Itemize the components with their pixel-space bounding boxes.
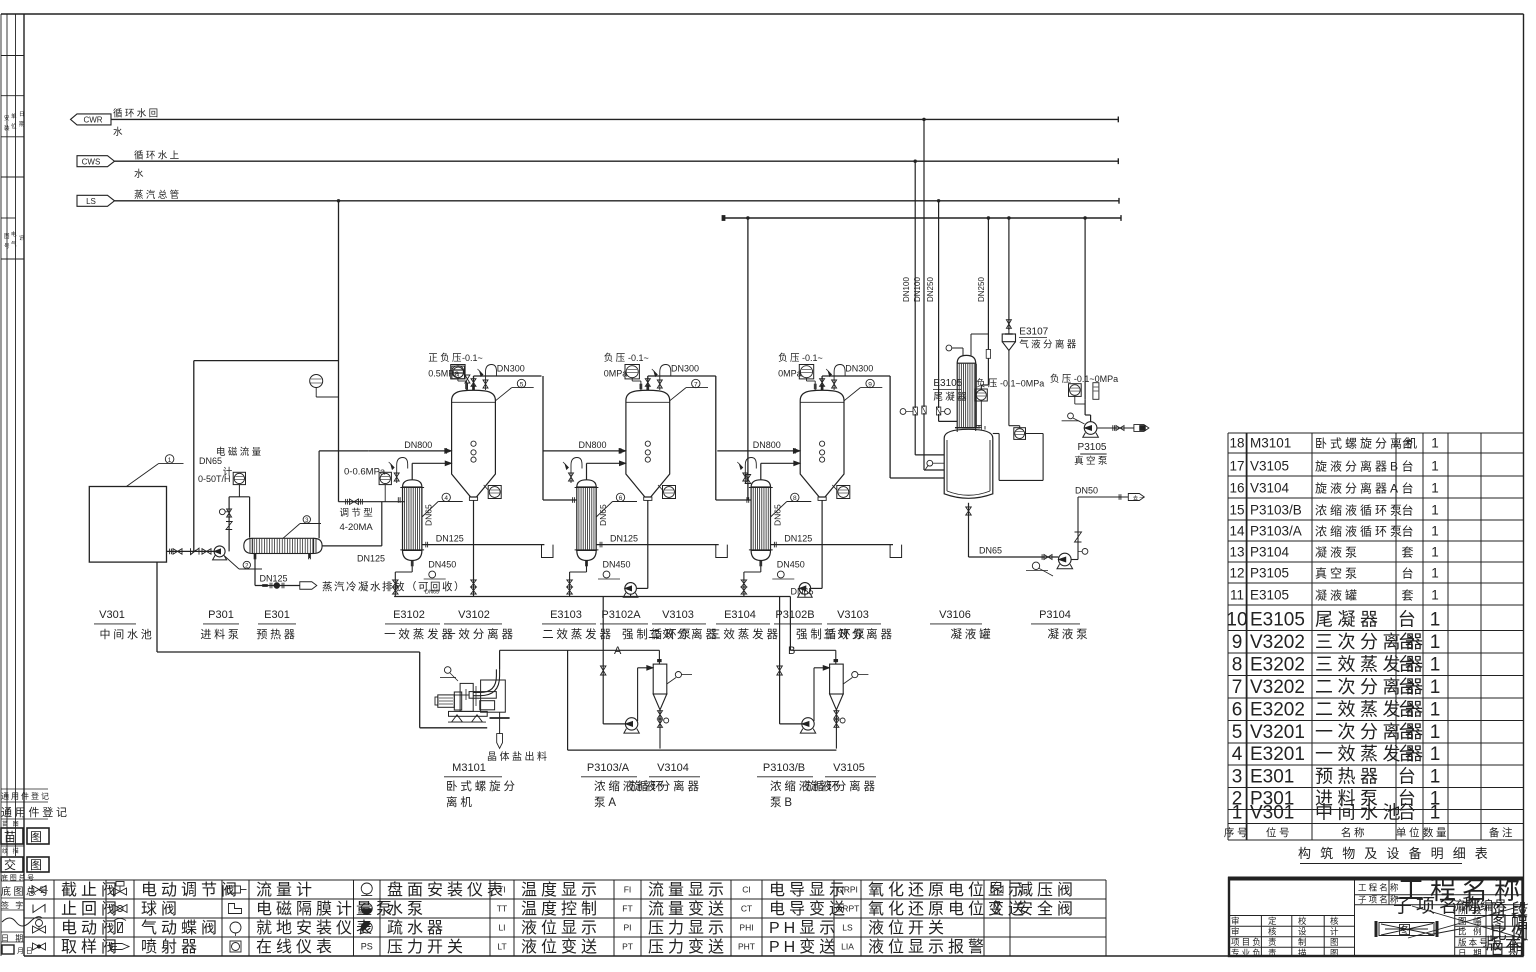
svg-text:CT: CT (741, 904, 752, 914)
svg-text:安: 安 (4, 114, 10, 122)
svg-text:P3102A: P3102A (601, 609, 641, 621)
control valve line 调节型 (339, 501, 406, 503)
svg-text:电: 电 (11, 230, 17, 238)
wire steam drop to unit 1 (338, 201, 340, 502)
instrument bubble (M3101) (444, 667, 451, 674)
svg-text:数量: 数量 (1423, 826, 1449, 839)
pressure gauge on steam sub-line (310, 375, 323, 388)
svg-text:17: 17 (1229, 459, 1244, 474)
svg-text:台: 台 (1398, 803, 1421, 823)
svg-text:台: 台 (1398, 722, 1421, 742)
svg-text:台: 台 (1398, 700, 1421, 720)
legend symbol stop valve (32, 886, 46, 894)
valve stop 2 (202, 549, 211, 555)
svg-text:交: 交 (4, 857, 19, 872)
svg-text:调节型: 调节型 (340, 508, 376, 519)
svg-text:球阀: 球阀 (141, 900, 181, 918)
svg-text:1: 1 (1431, 481, 1439, 496)
svg-text:台: 台 (1398, 744, 1421, 764)
svg-text:V3103: V3103 (662, 609, 694, 621)
svg-text:液位变送: 液位变送 (521, 938, 601, 956)
wire DN100 drop B (923, 119, 925, 407)
svg-text:1: 1 (1232, 803, 1243, 824)
svg-text:取样阀: 取样阀 (61, 938, 121, 956)
svg-text:苗: 苗 (4, 830, 19, 844)
svg-text:水泵: 水泵 (387, 900, 427, 918)
svg-text:台: 台 (1401, 459, 1416, 474)
svg-text:期: 期 (19, 121, 25, 128)
effect unit 2: evaporator E3103 + separator V3103 (543, 364, 727, 597)
svg-text:M3101: M3101 (1250, 436, 1291, 451)
svg-text:E3202: E3202 (1250, 655, 1305, 676)
svg-text:1: 1 (1430, 632, 1441, 653)
drum side instrument (927, 460, 933, 466)
svg-text:-0.1~: -0.1~ (628, 353, 649, 363)
svg-text:台: 台 (1398, 655, 1421, 675)
legend symbol online instrument (230, 941, 241, 952)
legend symbol motor valve (33, 926, 46, 933)
svg-text:1: 1 (1430, 767, 1441, 788)
svg-text:V3103: V3103 (837, 609, 869, 621)
svg-text:P3103/A: P3103/A (587, 762, 630, 774)
svg-text:DN65: DN65 (425, 590, 439, 596)
flow meter 电磁流量计 (233, 472, 245, 484)
wire bypass loop (993, 433, 999, 435)
wire E301 shell outlet riser (318, 451, 320, 538)
svg-text:凝液罐: 凝液罐 (950, 627, 993, 641)
wire underflow collector (568, 749, 837, 751)
svg-text:DN50: DN50 (1075, 486, 1098, 496)
svg-text:1: 1 (1431, 524, 1439, 539)
svg-text:水: 水 (134, 168, 146, 180)
svg-text:5: 5 (520, 381, 524, 388)
svg-text:1: 1 (1430, 610, 1441, 631)
svg-text:7: 7 (1232, 677, 1243, 698)
svg-text:CI: CI (742, 885, 751, 895)
legend symbol diaphragm metering pump (229, 904, 242, 914)
svg-text:P301: P301 (208, 609, 234, 621)
svg-text:FI: FI (624, 885, 632, 895)
svg-text:描: 描 (1298, 948, 1309, 958)
svg-text:P3104: P3104 (1039, 609, 1071, 621)
gauge (condenser) (975, 389, 987, 401)
svg-text:流量显示: 流量显示 (648, 881, 728, 899)
svg-text:DN125: DN125 (357, 554, 385, 564)
svg-text:旋液分离器B: 旋液分离器B (1315, 459, 1401, 474)
cyclone unit B: pump P3103/B + hydrocyclone V3105 (777, 597, 869, 749)
svg-text:制: 制 (1298, 937, 1309, 947)
svg-text:计: 计 (1330, 927, 1341, 937)
wire vapor drop unit2 to unit3 (715, 376, 717, 500)
svg-text:在线仪表: 在线仪表 (256, 938, 336, 956)
svg-text:通用件登记: 通用件登记 (1, 805, 70, 819)
svg-text:日期: 日期 (1490, 942, 1526, 959)
left margin strip (0, 14, 2, 956)
svg-text:P3103/A: P3103/A (1250, 524, 1302, 539)
svg-text:压力开关: 压力开关 (387, 938, 467, 956)
svg-text:预热器: 预热器 (256, 628, 297, 641)
svg-text:1: 1 (1431, 436, 1439, 451)
effect unit 3: evaporator E3104 + separator V3103 (717, 364, 901, 597)
svg-text:凝液泵: 凝液泵 (1047, 627, 1090, 641)
svg-text:液位显示: 液位显示 (521, 919, 601, 937)
svg-text:PS: PS (361, 942, 373, 952)
svg-text:3: 3 (1232, 767, 1243, 788)
svg-text:压力变送: 压力变送 (648, 938, 728, 956)
svg-text:中间水池: 中间水池 (1315, 803, 1405, 823)
svg-text:位号: 位号 (1266, 826, 1292, 839)
cyclone unit A: pump P3103/A + hydrocyclone V3104 (600, 597, 692, 749)
svg-text:图: 图 (1398, 923, 1414, 938)
legend symbol ball valve (113, 905, 127, 913)
svg-text:图: 图 (30, 830, 45, 844)
salt discharge flange (490, 717, 510, 719)
svg-text:就地安装仪表: 就地安装仪表 (256, 919, 376, 937)
svg-text:校: 校 (1298, 916, 1309, 926)
legend symbol pneumatic butterfly valve (118, 923, 123, 933)
svg-text:台: 台 (1398, 610, 1421, 630)
drawing frame border (1, 13, 1524, 15)
svg-text:1: 1 (1431, 459, 1439, 474)
svg-text:9: 9 (1232, 632, 1243, 653)
svg-text:单: 单 (11, 112, 17, 120)
svg-text:1: 1 (168, 457, 172, 464)
svg-text:DN125: DN125 (260, 574, 288, 584)
instrument bubble 2 (P301) (225, 556, 240, 569)
svg-text:13: 13 (1229, 545, 1244, 560)
svg-text:1: 1 (1430, 722, 1441, 743)
svg-text:止回阀: 止回阀 (61, 900, 121, 918)
svg-text:负压: 负压 (778, 352, 802, 364)
tank V301 中间水池 (89, 487, 166, 563)
pump P3104 凝液泵 (1059, 553, 1072, 566)
heat exchanger E301 预热器 (244, 538, 253, 553)
extra gauge unit1 (452, 366, 465, 379)
svg-text:苗 图: 苗 图 (2, 820, 20, 828)
svg-text:E301: E301 (1250, 767, 1294, 788)
svg-text:1: 1 (1430, 677, 1441, 698)
svg-text:台: 台 (1401, 524, 1416, 539)
svg-text:设: 设 (1298, 927, 1309, 937)
gas-liquid separator E3107 气液分离器 (1002, 334, 1015, 342)
svg-text:氧化还原电位显示: 氧化还原电位显示 (868, 881, 1028, 899)
svg-text:离机: 离机 (446, 795, 475, 809)
svg-text:减压阀: 减压阀 (1017, 881, 1077, 899)
svg-text:FT: FT (622, 904, 632, 914)
svg-text:P3103/B: P3103/B (1250, 503, 1302, 518)
svg-text:晶体盐出料: 晶体盐出料 (487, 750, 550, 763)
wire unit1 cone drain to DN65 header (473, 578, 475, 597)
svg-text:B: B (788, 645, 795, 657)
svg-text:一效分离器: 一效分离器 (444, 627, 516, 641)
svg-text:台: 台 (1401, 566, 1416, 581)
svg-text:6: 6 (619, 495, 623, 502)
machine base (449, 711, 488, 716)
instrument square (drum) (1014, 428, 1026, 440)
svg-text:PHT: PHT (738, 942, 755, 952)
svg-text:图: 图 (4, 232, 10, 240)
condensate drum V3106 凝液罐 (944, 429, 993, 498)
svg-text:1: 1 (1430, 655, 1441, 676)
wire drum bottom outlet (968, 503, 970, 557)
svg-text:E3102: E3102 (393, 609, 425, 621)
capsule instrument (1093, 383, 1099, 400)
svg-text:台: 台 (1398, 677, 1421, 697)
svg-text:套: 套 (1401, 546, 1416, 560)
svg-text:负压: 负压 (976, 378, 1000, 390)
svg-text:V3201: V3201 (1250, 722, 1305, 743)
svg-text:4: 4 (1232, 744, 1243, 765)
svg-text:-0.1~0MPa: -0.1~0MPa (1000, 379, 1044, 389)
pipe flag LS (77, 195, 115, 206)
pipe flag CWS (77, 156, 115, 167)
svg-text:1: 1 (1431, 503, 1439, 518)
svg-text:DN100: DN100 (902, 277, 911, 302)
wire LS main (115, 200, 1120, 202)
svg-text:月日: 月日 (17, 947, 35, 955)
svg-text:真空泵: 真空泵 (1074, 455, 1110, 467)
svg-text:15: 15 (1229, 503, 1244, 518)
svg-text:1: 1 (1431, 566, 1439, 581)
pump P3102A 强制循环泵 (647, 578, 649, 588)
wire DN250 drop D (987, 218, 989, 350)
title block stamp 图 (1375, 921, 1378, 937)
svg-text:PT: PT (622, 942, 633, 952)
svg-text:V3105: V3105 (1250, 459, 1289, 474)
valve bubbles on drops (900, 409, 906, 415)
svg-text:截止阀: 截止阀 (61, 881, 121, 899)
svg-text:号: 号 (4, 243, 10, 250)
svg-text:1: 1 (1431, 588, 1439, 603)
legend symbol steam trap (361, 922, 372, 933)
machine M3101 decanter centrifuge (435, 697, 438, 705)
wire vacuum line (1084, 218, 1086, 399)
svg-text:旋液分离器A: 旋液分离器A (1315, 481, 1401, 496)
svg-text:V3202: V3202 (1250, 632, 1305, 653)
svg-text:TT: TT (497, 904, 507, 914)
svg-text:预热器: 预热器 (1315, 767, 1383, 787)
svg-text:循环水回: 循环水回 (113, 108, 161, 120)
svg-text:图: 图 (1330, 937, 1341, 947)
svg-text:电磁隔膜计量泵: 电磁隔膜计量泵 (256, 900, 396, 918)
instrument bubble (P3105) (1068, 413, 1074, 419)
wire vapor unit3 to condenser loop (889, 376, 891, 478)
svg-text:进料泵: 进料泵 (200, 627, 241, 641)
instrument bubble 3 (E301) (283, 524, 300, 539)
svg-text:泵B: 泵B (770, 796, 795, 809)
pipe flag (vacuum out) (1134, 425, 1149, 432)
equipment table grid (1228, 432, 1524, 434)
svg-text:凝液罐: 凝液罐 (1315, 588, 1360, 603)
svg-text:P3105: P3105 (1250, 566, 1289, 581)
wire mother liquor return (156, 562, 158, 652)
legend table grid (24, 879, 1106, 881)
svg-text:蒸汽总管: 蒸汽总管 (134, 189, 182, 201)
svg-text:P3105: P3105 (1078, 442, 1107, 453)
wire CWR main (111, 118, 1118, 120)
svg-text:位: 位 (11, 122, 17, 130)
svg-text:浓缩液循环泵: 浓缩液循环泵 (1315, 524, 1405, 539)
svg-text:E3103: E3103 (550, 609, 582, 621)
svg-text:4-20MA: 4-20MA (340, 522, 374, 533)
vacuum pump P3105 真空泵 (1084, 422, 1097, 435)
wire P3105 discharge (1097, 427, 1134, 429)
svg-text:0-50T/H: 0-50T/H (198, 474, 231, 484)
svg-text:LIA: LIA (841, 942, 854, 952)
svg-text:尾凝器: 尾凝器 (1315, 610, 1383, 630)
svg-text:DN65: DN65 (791, 587, 814, 597)
wire vacuum header (723, 217, 1121, 219)
svg-text:气动蝶阀: 气动蝶阀 (141, 919, 221, 937)
svg-text:E3202: E3202 (1250, 700, 1305, 721)
svg-text:LT: LT (497, 942, 506, 952)
svg-text:气: 气 (11, 240, 17, 248)
pipe flag CWR (71, 114, 112, 125)
svg-text:图: 图 (30, 858, 45, 872)
pipe flag 蒸汽冷凝水排放 (300, 582, 317, 590)
svg-text:液位开关: 液位开关 (868, 919, 948, 937)
wire steam branch to unit 3 (747, 218, 749, 500)
legend symbol pressure reducing valve (991, 886, 1003, 893)
svg-text:DN100: DN100 (913, 277, 922, 302)
svg-text:V3106: V3106 (939, 609, 971, 621)
svg-text:定: 定 (1268, 916, 1279, 926)
E3105 top stubs (962, 348, 964, 355)
svg-text:P3103/B: P3103/B (763, 762, 805, 774)
wire P3104 discharge DN50 (1071, 559, 1078, 561)
svg-text:P3104: P3104 (1250, 545, 1290, 560)
svg-text:台: 台 (1398, 767, 1421, 787)
svg-text:台: 台 (1398, 632, 1421, 652)
wire E3107 drain (1008, 351, 1010, 426)
svg-text:三效分离器: 三效分离器 (823, 627, 895, 641)
svg-text:PH变送: PH变送 (769, 938, 839, 956)
svg-text:去一: 去一 (1133, 495, 1146, 502)
svg-text:三效蒸发器: 三效蒸发器 (709, 627, 781, 641)
svg-text:气液分离器: 气液分离器 (1019, 339, 1078, 351)
svg-text:DN65: DN65 (199, 456, 222, 466)
svg-text:1: 1 (1431, 545, 1439, 560)
wire CWS main (115, 160, 1119, 162)
title block frame (1228, 877, 1524, 881)
svg-text:E3201: E3201 (1250, 744, 1305, 765)
svg-text:氧化还原电位变送: 氧化还原电位变送 (868, 900, 1028, 918)
svg-text:1: 1 (1430, 744, 1441, 765)
svg-text:卧式螺旋分: 卧式螺旋分 (446, 779, 518, 793)
svg-text:A: A (614, 645, 622, 657)
legend symbol sampling valve (33, 943, 46, 950)
svg-text:水: 水 (113, 126, 125, 138)
svg-text:PH显示: PH显示 (769, 920, 839, 937)
E301 bottom nozzles (254, 554, 256, 559)
svg-text:电动调节阀: 电动调节阀 (141, 881, 241, 899)
pump P301 进料泵 (214, 546, 225, 557)
svg-text:16: 16 (1229, 481, 1244, 496)
svg-text:LI: LI (498, 923, 505, 933)
svg-text:CWS: CWS (82, 157, 101, 166)
svg-text:V3104: V3104 (1250, 481, 1290, 496)
svg-text:尾凝器: 尾凝器 (933, 392, 969, 403)
drum top nozzles (978, 425, 980, 429)
svg-text:V301: V301 (99, 609, 125, 621)
svg-text:CWR: CWR (83, 116, 102, 125)
svg-text:1: 1 (1430, 700, 1441, 721)
svg-text:责: 责 (1268, 948, 1279, 958)
svg-text:8: 8 (1232, 655, 1243, 676)
svg-text:套: 套 (1401, 589, 1416, 603)
legend symbol check valve (33, 905, 45, 913)
svg-text:台: 台 (1401, 481, 1416, 496)
svg-text:通用件登记: 通用件登记 (1, 791, 51, 801)
legend symbol control valve (114, 888, 127, 895)
svg-text:责: 责 (1268, 937, 1279, 947)
svg-text:1: 1 (1430, 803, 1441, 824)
svg-text:旋液分离器: 旋液分离器 (630, 779, 702, 793)
svg-text:电导显示: 电导显示 (769, 881, 849, 899)
svg-text:疏水器: 疏水器 (387, 919, 447, 937)
svg-text:负压: 负压 (604, 352, 628, 364)
svg-text:审: 审 (1231, 916, 1242, 926)
svg-text:电磁流量: 电磁流量 (216, 446, 264, 458)
svg-text:压力显示: 压力显示 (648, 919, 728, 937)
svg-text:10: 10 (1226, 610, 1247, 631)
svg-text:9: 9 (868, 381, 872, 388)
svg-text:专业负: 专业负 (1231, 948, 1263, 958)
wire feed to E301 tube side (249, 497, 251, 538)
svg-text:DN250: DN250 (926, 277, 935, 302)
svg-text:工程名称: 工程名称 (1358, 883, 1401, 893)
valve ball (drain) (274, 582, 280, 588)
svg-text:泵A: 泵A (594, 796, 619, 809)
title block scribbles (1408, 904, 1528, 938)
svg-text:6: 6 (1232, 700, 1243, 721)
svg-text:P3102B: P3102B (775, 609, 814, 621)
wire DN100 drop A (914, 161, 916, 408)
svg-text:单位: 单位 (1396, 826, 1422, 839)
svg-text:循环水上: 循环水上 (134, 150, 182, 162)
svg-text:备注: 备注 (1489, 826, 1515, 839)
svg-text:-0.1~: -0.1~ (462, 353, 483, 363)
svg-text:E3105: E3105 (933, 378, 962, 389)
svg-text:浓缩液循环泵: 浓缩液循环泵 (1315, 503, 1405, 518)
wire to E3107 (1008, 218, 1010, 330)
wire cyclone overflow to M3101 (500, 649, 660, 651)
svg-text:项目负: 项目负 (1231, 937, 1263, 947)
svg-text:讯: 讯 (19, 234, 25, 242)
svg-text:正负压: 正负压 (428, 352, 464, 364)
wire DN65 condensate header (394, 596, 790, 598)
wire vapor drop unit1 to unit2 (542, 376, 544, 500)
condenser E3105 尾凝器 (957, 355, 976, 363)
svg-text:液位显示报警: 液位显示报警 (868, 938, 988, 956)
svg-text:图: 图 (1330, 948, 1341, 958)
wire condensate drain DN125 (254, 558, 256, 585)
valve check (191, 548, 200, 554)
svg-text:E3105: E3105 (1250, 588, 1289, 603)
instrument bubble 1 (level, V301) (126, 463, 158, 486)
svg-text:核: 核 (1330, 916, 1341, 926)
svg-text:温度控制: 温度控制 (521, 900, 601, 918)
svg-text:V3105: V3105 (833, 762, 865, 774)
svg-text:E301: E301 (264, 609, 290, 621)
pipe flag (DN50 out) (1128, 494, 1144, 501)
svg-text:12: 12 (1229, 566, 1244, 581)
svg-text:V3202: V3202 (1250, 677, 1305, 698)
wire pump suction (167, 550, 215, 552)
svg-text:签 字: 签 字 (1, 900, 25, 910)
wire pump discharge riser (228, 497, 230, 552)
svg-text:DN65: DN65 (979, 546, 1002, 556)
